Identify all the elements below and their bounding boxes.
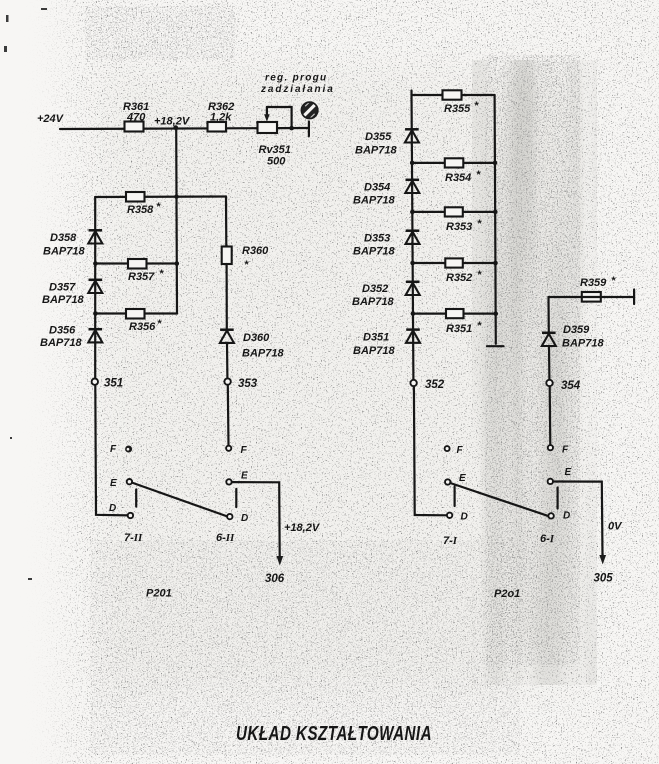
svg-text:E: E [459,473,466,484]
svg-text:*: * [244,259,249,271]
svg-text:R351: R351 [446,323,472,335]
svg-text:500: 500 [267,156,286,168]
junction center/top [174,194,179,199]
switch 6-II contact D [227,513,248,524]
wire +24V supply rail [60,128,309,129]
svg-text:D354: D354 [364,182,390,194]
svg-text:D360: D360 [243,332,270,344]
svg-text:R354: R354 [445,172,471,184]
diode D356 [40,325,102,350]
wire wiper feedback bracket [267,107,292,128]
svg-text:F: F [562,445,569,456]
resistor R354 [445,158,481,184]
wire center rail [175,128,178,314]
svg-text:P201: P201 [146,588,172,600]
label 306 [265,573,285,585]
label 0V [608,521,623,533]
diode D359 [542,324,605,350]
label +24V [37,113,65,125]
svg-text:R356: R356 [129,321,156,333]
arrow output 305 [599,555,606,565]
junction R351 right [493,311,498,316]
svg-text:R360: R360 [242,245,269,257]
wire left rail right block [412,91,414,380]
switch 7-II contact bar [135,490,137,507]
diode D354 [353,180,419,207]
wire end terminal bar [308,122,310,137]
svg-text:*: * [157,318,162,330]
wire network top run right [412,94,495,96]
svg-text:*: * [477,269,482,281]
switch 7-II contact D [109,503,133,518]
diode D352 [352,282,420,308]
svg-text:BAP718: BAP718 [242,348,284,360]
svg-text:D359: D359 [563,324,590,336]
junction R354 right [493,161,498,166]
svg-text:306: 306 [265,573,285,585]
svg-text:470: 470 [126,112,146,124]
label P201 [146,588,172,600]
switch P201 section 7-II contact F [110,444,132,455]
wire R359 run [549,296,635,298]
junction R351 left [411,311,416,316]
resistor R359 [580,275,616,302]
svg-text:BAP718: BAP718 [353,246,395,258]
svg-text:BAP718: BAP718 [562,338,604,350]
switch 6-I contact D [548,511,570,522]
resistor R362 [208,101,235,132]
diode D353 [353,231,420,258]
svg-text:7-I: 7-I [443,535,458,547]
wire 351 to contact D [95,385,128,515]
resistor R351 [446,309,482,335]
junction wiper tap [289,126,294,131]
svg-text:D356: D356 [49,325,76,337]
wire wiper 7-II E to 6-II D [132,483,227,517]
svg-text:*: * [159,268,164,280]
wire R360 branch top [225,197,228,247]
svg-text:6-II: 6-II [216,532,235,544]
node 353 [224,378,257,390]
svg-text:BAP718: BAP718 [352,296,394,308]
wire R352 branch [413,262,496,264]
label 305 [594,573,614,585]
switch 6-II contact E [226,471,248,485]
switch 6-I contact E [548,467,572,484]
caption UKLAD KSZTALTOWANIA [236,723,432,745]
svg-text:*: * [474,100,479,112]
svg-text:E: E [565,467,572,478]
wire R351 branch [413,313,496,315]
svg-text:D352: D352 [362,283,388,295]
wire 354 to contact F [549,386,552,445]
switch P201 section 6-II contact F [226,445,247,456]
svg-text:E: E [241,471,248,482]
label 7-I [443,535,458,547]
junction R352 right [493,261,498,266]
stray scan marks [4,8,47,580]
svg-text:F: F [241,445,248,456]
switch 6-I contact bar [556,488,558,509]
svg-text:D: D [241,513,248,524]
label 7-II [124,532,143,544]
svg-text:D355: D355 [365,131,392,143]
svg-text:D: D [109,503,116,514]
wire R357 branch [95,262,177,264]
svg-text:*: * [611,275,616,287]
svg-text:BAP718: BAP718 [40,337,82,349]
resistor R360 [222,245,269,271]
label +18,2V output [284,522,321,534]
svg-text:*: * [156,201,161,213]
svg-text:Rv351: Rv351 [259,144,291,156]
svg-text:R353: R353 [446,221,472,233]
svg-text:R358: R358 [127,204,154,216]
switch P201 section 6-I contact F [548,445,569,456]
wire D360 to node 353 [226,343,229,379]
terminal bar bottom of right rail [487,345,504,347]
svg-text:R357: R357 [128,271,155,283]
svg-text:F: F [457,445,464,456]
wire D359 to node 354 [548,346,551,380]
svg-text:305: 305 [594,573,614,585]
svg-text:0V: 0V [608,521,623,533]
diode D358 [43,230,102,257]
label reg. progu zadzialania [260,73,335,96]
potentiometer Rv351 [258,107,291,168]
wire 353 to contact F [227,385,230,446]
wire R356 branch [95,312,177,314]
svg-text:P2o1: P2o1 [494,588,520,600]
label P201 right [494,588,520,600]
resistor R361 [123,101,149,132]
svg-text:354: 354 [561,380,581,392]
wire 6-II E to output 306 [232,482,280,556]
label 6-II [216,532,235,544]
junction R353 right [493,210,498,215]
svg-text:D353: D353 [364,233,390,245]
svg-text:+18,2V: +18,2V [284,522,321,534]
resistor R357 [128,259,164,283]
node 351 [92,378,124,390]
wire R360 to D360 [226,264,228,330]
switch 6-II contact bar [235,489,237,507]
svg-text:BAP718: BAP718 [42,294,84,306]
svg-text:R352: R352 [446,272,472,284]
svg-text:R355: R355 [444,103,471,115]
svg-text:D358: D358 [50,232,77,244]
wire R353 branch [412,211,495,213]
svg-text:D357: D357 [49,282,76,294]
wire network top run [95,195,226,198]
svg-text:F: F [110,444,117,455]
svg-text:D: D [563,511,570,522]
diode D351 [353,330,420,357]
junction R356 left [93,311,98,316]
resistor R355 [443,90,480,115]
svg-text:R359: R359 [580,277,607,289]
wire 6-I E to output 305 [553,482,603,556]
resistor R353 [445,207,482,233]
svg-text:D351: D351 [363,332,389,344]
label +18,2V [154,116,191,128]
resistor R356 [126,309,162,333]
resistor R352 [445,258,482,284]
svg-text:D: D [461,512,468,523]
terminal bar R359 [633,290,635,305]
wire right rail [495,95,496,344]
svg-text:6-I: 6-I [540,533,555,545]
switch 7-I contact E [445,473,466,485]
svg-text:+18,2V: +18,2V [154,116,191,128]
wire R354 branch [412,162,495,164]
arrow output 306 [276,556,283,566]
label 6-I [540,533,555,545]
node 354 [546,380,580,392]
node 352 [410,379,444,391]
wire left rail [94,197,96,379]
wire R359 corner down to D359 [547,297,549,333]
svg-text:+24V: +24V [37,113,65,125]
svg-text:*: * [477,320,482,332]
resistor R358 [126,192,161,216]
svg-text:BAP718: BAP718 [353,195,395,207]
svg-text:353: 353 [238,378,258,390]
wire 352 to contact D [414,386,447,515]
switch 7-I contact D [447,512,468,523]
svg-text:E: E [110,478,117,489]
svg-text:351: 351 [104,378,123,390]
svg-text:7-II: 7-II [124,532,143,544]
svg-text:reg. progu: reg. progu [265,73,327,84]
wire wiper 7-I E to 6-I D [450,483,549,516]
svg-text:BAP718: BAP718 [355,145,397,157]
junction R353 left [410,210,415,215]
svg-text:UKŁAD KSZTAŁTOWANIA: UKŁAD KSZTAŁTOWANIA [236,723,432,745]
svg-text:*: * [476,169,481,181]
junction R352 left [410,261,415,266]
switch P201 section 7-I contact F [445,445,464,456]
svg-text:*: * [477,218,482,230]
switch 7-I contact bar [454,487,456,507]
junction R354 left [410,161,415,166]
svg-text:BAP718: BAP718 [353,345,395,357]
svg-text:zadziałania: zadziałania [260,84,335,95]
junction R357 right [175,261,180,266]
svg-text:1,2k: 1,2k [210,112,232,124]
diode D360 [220,330,285,360]
diode D357 [42,280,102,306]
svg-text:352: 352 [425,379,445,391]
svg-text:BAP718: BAP718 [43,246,85,258]
switch 7-II contact E [110,478,132,489]
adjustment screw symbol [301,102,317,118]
junction node +18,2V [173,125,178,130]
junction R357 left [93,261,98,266]
diode D355 [355,129,419,156]
